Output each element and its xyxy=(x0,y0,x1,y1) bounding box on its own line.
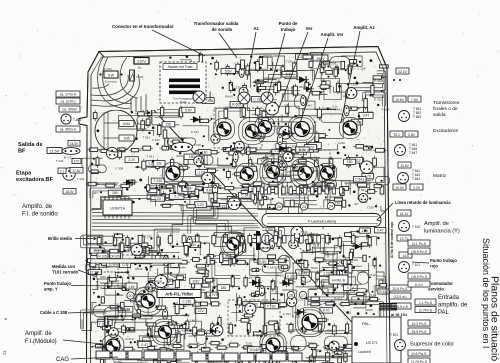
svg-text:C 641: C 641 xyxy=(267,266,275,270)
value label 4.7V (box 31) xyxy=(322,362,333,363)
diode D612 xyxy=(123,179,135,185)
resistor R603 xyxy=(313,347,317,359)
wire xyxy=(147,193,156,206)
wire xyxy=(274,173,305,179)
transistor T219 xyxy=(283,152,293,162)
power transistor T656 xyxy=(163,163,184,184)
resistor R453 xyxy=(279,154,282,167)
right cluster box 2.8V xyxy=(405,131,418,137)
resistor R359 xyxy=(179,182,186,186)
svg-text:C 641: C 641 xyxy=(152,138,160,142)
resistor R512 xyxy=(149,279,153,291)
wire xyxy=(319,190,330,207)
svg-text:Conectat: Conectat xyxy=(105,80,117,84)
svg-text:R640: R640 xyxy=(176,154,184,158)
resistor R463 xyxy=(177,184,190,187)
value label 1.2V (box 68) xyxy=(359,228,370,233)
resistor R505 xyxy=(264,261,276,264)
right box 14.1V xyxy=(397,210,411,216)
wire xyxy=(313,69,330,94)
svg-text:Matriz: Matriz xyxy=(433,173,447,179)
resistor R651 xyxy=(293,84,297,98)
resistor R568 xyxy=(208,351,212,363)
wire xyxy=(354,92,384,108)
resistor R484 xyxy=(223,232,227,245)
value label C 230 (box 62) xyxy=(179,299,194,305)
wire xyxy=(250,260,284,275)
value label 180 (box 44) xyxy=(184,154,199,159)
resistor R626 xyxy=(310,91,323,95)
resistor R401 xyxy=(215,60,219,72)
wire xyxy=(280,125,314,143)
svg-text:17: 17 xyxy=(301,293,305,297)
svg-text:R 612: R 612 xyxy=(381,107,389,111)
resistor R627 xyxy=(195,270,209,273)
wire loop xyxy=(178,181,188,196)
leader for Amplit. Ver xyxy=(299,38,328,126)
svg-text:23: 23 xyxy=(2,350,7,355)
capacitor C601 xyxy=(277,135,282,145)
box 14.5V above oval xyxy=(68,141,80,147)
resistor R540 xyxy=(193,325,197,338)
resistor R614 xyxy=(166,322,180,325)
value label 4.7V (box 13) xyxy=(160,279,173,284)
test point (28) xyxy=(287,291,294,298)
svg-text:ca. 17Vs-S: ca. 17Vs-S xyxy=(60,93,77,97)
left margin cluster box ca 12m xyxy=(56,98,80,104)
resistor R636 xyxy=(208,342,221,345)
value label 5.6V (box 50) xyxy=(282,72,297,78)
resistor R346 xyxy=(345,233,352,237)
wire xyxy=(95,239,131,250)
resistor R565 xyxy=(323,345,335,348)
wire loop xyxy=(144,251,161,263)
resistor R571 xyxy=(256,353,260,363)
svg-text:C 641: C 641 xyxy=(358,188,366,192)
resistor R701 xyxy=(177,166,190,169)
wire (bottom edge) xyxy=(191,352,216,354)
wire xyxy=(139,314,152,319)
left margin cluster box ca 30Vef xyxy=(59,106,80,112)
wire xyxy=(292,263,322,272)
resistor R431 xyxy=(99,149,112,152)
svg-text:7.5V: 7.5V xyxy=(411,98,419,102)
resistor R665 xyxy=(354,292,366,295)
resistor R643 xyxy=(194,264,208,268)
svg-text:R640: R640 xyxy=(311,266,319,270)
svg-text:H-PAL-B: H-PAL-B xyxy=(332,279,346,283)
wire xyxy=(92,279,114,290)
wire xyxy=(283,181,318,205)
right boxes 10.4V 2.2V xyxy=(393,184,423,190)
resistor R404 xyxy=(246,63,250,77)
transistor T227 xyxy=(262,233,274,245)
value label 0.47 (box 8) xyxy=(359,112,373,118)
wire xyxy=(343,270,362,286)
svg-text:Punto trabajo: Punto trabajo xyxy=(430,258,457,263)
svg-text:T 641: T 641 xyxy=(146,155,154,159)
wire xyxy=(200,266,206,273)
svg-text:Hacker mit Trafo: Hacker mit Trafo xyxy=(168,65,193,69)
wire xyxy=(323,62,343,69)
leader for Conector label xyxy=(152,30,205,56)
bottom connector box 13 xyxy=(288,353,302,361)
value label 10.8V (box 75) xyxy=(311,53,322,58)
resistor R703 xyxy=(134,297,146,301)
wire channel 3 xyxy=(350,303,384,318)
wire (vertical) xyxy=(115,290,117,324)
resistor R694 xyxy=(260,195,264,208)
transistor T214 xyxy=(289,240,298,249)
transistor with cross T613 xyxy=(261,92,273,104)
svg-text:1.5V: 1.5V xyxy=(128,285,136,289)
resistor R497 xyxy=(117,262,130,266)
wire xyxy=(147,194,198,199)
svg-text:T 641: T 641 xyxy=(360,200,368,204)
svg-text:14.5V: 14.5V xyxy=(70,142,79,146)
resistor R550 xyxy=(346,322,349,336)
wire xyxy=(320,264,339,276)
value label T 230 (box 78) xyxy=(258,159,272,164)
wire xyxy=(274,204,299,219)
wire xyxy=(254,75,295,82)
svg-text:R 612: R 612 xyxy=(374,98,382,102)
value label C 641 (box 5) xyxy=(239,192,254,198)
resistor R601 xyxy=(132,247,144,251)
wire xyxy=(287,346,316,361)
luminance delay line inner xyxy=(267,217,378,224)
wire channel 15 xyxy=(195,208,238,231)
resistor R516 xyxy=(203,274,207,288)
wire xyxy=(294,151,320,161)
resistor R351 xyxy=(307,244,311,250)
resistor R546 xyxy=(289,322,293,334)
left margin transistor T601 xyxy=(61,114,81,124)
resistor R572 xyxy=(293,354,297,363)
svg-text:C 308: C 308 xyxy=(239,303,247,307)
svg-text:servicio: servicio xyxy=(428,287,444,292)
resistor R543 xyxy=(247,321,250,335)
svg-text:(15.9 Pv-S: (15.9 Pv-S xyxy=(411,250,428,254)
svg-text:Transistores: Transistores xyxy=(433,100,460,106)
resistor R306 xyxy=(258,191,262,200)
svg-text:MASSICT: MASSICT xyxy=(100,281,114,285)
wire xyxy=(148,176,175,196)
resistor R561 xyxy=(259,345,272,349)
resistor R410 xyxy=(348,63,351,77)
value label 0.47 (box 82) xyxy=(138,342,151,348)
resistor R440 xyxy=(245,148,259,152)
wire channel 11 xyxy=(262,229,283,241)
right box 25.9PvS xyxy=(408,328,430,334)
resistor R503 xyxy=(219,261,233,265)
wire (vertical) xyxy=(210,281,212,305)
wire loop xyxy=(295,95,307,109)
wire channel 9 xyxy=(115,354,141,361)
value label 10.8V (box 28) xyxy=(201,353,214,359)
value label 0.47 (box 18) xyxy=(320,308,333,313)
resistor R418 xyxy=(336,81,339,94)
power transistor T655 xyxy=(340,118,361,139)
capacitor C608 xyxy=(163,256,168,266)
wire xyxy=(381,206,385,211)
resistor R347 xyxy=(350,249,353,256)
value label 4.7V (box 41) xyxy=(206,292,218,298)
power transistor T664 xyxy=(260,332,286,358)
resistor R441 xyxy=(269,149,281,153)
resistor R470 xyxy=(297,185,311,188)
svg-text:R 612: R 612 xyxy=(379,290,388,294)
svg-text:T230: T230 xyxy=(286,59,293,63)
wire xyxy=(230,73,251,88)
svg-text:Línea retardo de luminancia: Línea retardo de luminancia xyxy=(395,200,451,205)
svg-text:5.6V: 5.6V xyxy=(185,108,193,112)
resistor R467 xyxy=(240,184,252,187)
value label C 230 (box 63) xyxy=(252,96,265,102)
resistor R702 xyxy=(174,276,186,280)
resistor R520 xyxy=(271,278,275,291)
wire xyxy=(122,246,145,261)
resistor R531 xyxy=(257,304,270,308)
svg-text:finales o de: finales o de xyxy=(433,106,458,112)
resistor R434 xyxy=(140,146,153,150)
svg-text:20.6 Pv-S: 20.6 Pv-S xyxy=(393,287,409,291)
wire xyxy=(240,108,274,122)
resistor R352 xyxy=(348,265,352,273)
wire xyxy=(302,238,341,260)
svg-text:N 105: N 105 xyxy=(98,254,107,258)
resistor R695 xyxy=(347,120,350,131)
resistor R469 xyxy=(267,182,281,186)
resistor R616 xyxy=(254,193,257,206)
resistor R681 xyxy=(260,118,271,122)
svg-text:C 308: C 308 xyxy=(226,72,234,76)
leader for Punto trabajo rojo xyxy=(412,262,429,263)
resistor R353 xyxy=(268,205,276,209)
wire (bottom edge) xyxy=(153,360,182,362)
value label 10.8V (box 34) xyxy=(126,354,138,359)
resistor R406 xyxy=(281,64,285,76)
component designators xyxy=(93,59,390,363)
bottom connector box 7 xyxy=(192,353,206,361)
svg-text:C 308: C 308 xyxy=(265,227,273,231)
wire xyxy=(189,237,210,251)
diode box 1N5 inside circle xyxy=(119,135,134,141)
value label T 230 (box 14) xyxy=(264,304,279,309)
svg-text:0.1u: 0.1u xyxy=(275,149,281,153)
value label 180 (box 42) xyxy=(282,354,295,360)
wire xyxy=(119,115,147,129)
resistor R522 xyxy=(316,276,320,289)
svg-text:ca. 30Vef: ca. 30Vef xyxy=(62,108,76,112)
value label C 641 (box 7) xyxy=(205,293,218,298)
wire xyxy=(92,196,129,211)
transistor with cross T611 xyxy=(193,91,205,103)
wire loop xyxy=(137,116,152,124)
wire xyxy=(322,170,334,188)
resistor R714 xyxy=(160,204,173,207)
right boxes bottom xyxy=(408,350,430,363)
svg-text:F.I.(Módulo): F.I.(Módulo) xyxy=(25,339,57,345)
wire xyxy=(189,286,213,292)
resistor R621 xyxy=(262,109,266,120)
value label R 605 (box 30) xyxy=(230,102,243,108)
wire xyxy=(222,69,250,76)
wire channel (FI road) xyxy=(91,259,182,264)
solder junctions xyxy=(126,182,249,200)
resistor R409 xyxy=(336,65,339,77)
wire xyxy=(379,280,384,290)
resistor R632 xyxy=(160,146,172,150)
resistor R329 xyxy=(373,76,381,79)
dashed group outline 4 xyxy=(228,300,280,336)
wire xyxy=(363,83,385,98)
resistor R344 xyxy=(338,357,342,363)
wire (vertical) xyxy=(270,286,272,306)
wire xyxy=(169,321,202,331)
svg-text:PAL: PAL xyxy=(438,310,450,316)
resistor R489 xyxy=(295,233,299,246)
resistor R356 xyxy=(322,185,326,192)
resistor R457 xyxy=(360,156,364,170)
resistor R654 xyxy=(359,243,370,246)
resistor R638 xyxy=(242,314,255,317)
diode D602 xyxy=(294,309,307,316)
bottom connector box 11 xyxy=(256,353,270,361)
resistor R664 xyxy=(232,157,236,169)
resistor R667 xyxy=(137,307,140,319)
resistor R713 xyxy=(290,150,293,162)
resistor R451 xyxy=(249,157,252,169)
resistor R323 xyxy=(267,255,275,259)
svg-text:amplifo. de: amplifo. de xyxy=(438,303,468,309)
svg-text:F-Lautzeit-Leitung: F-Lautzeit-Leitung xyxy=(308,219,336,223)
value label 180 (box 64) xyxy=(217,285,229,291)
wire channel 20 xyxy=(145,108,181,115)
svg-text:T 641: T 641 xyxy=(143,136,151,140)
box 17.8V (excitadora) xyxy=(70,168,83,174)
value label 8.6V (box 25) xyxy=(155,326,167,331)
board outline (outer) xyxy=(79,47,390,363)
solder junctions xyxy=(269,187,328,210)
PAL module outline xyxy=(352,317,401,363)
solder junctions xyxy=(103,329,334,357)
wire xyxy=(94,243,141,252)
wire xyxy=(345,286,384,300)
resistor R648 xyxy=(229,256,232,267)
wire xyxy=(92,302,97,315)
resistor R521 xyxy=(301,275,305,287)
svg-text:(0.6 Pw-S: (0.6 Pw-S xyxy=(412,352,428,356)
resistor R444 xyxy=(361,146,374,150)
box DF105 xyxy=(110,253,121,259)
svg-text:0.1u: 0.1u xyxy=(371,293,377,297)
resistor R666 xyxy=(146,117,150,128)
resistor R316 xyxy=(90,263,96,267)
svg-text:4k7: 4k7 xyxy=(354,202,359,206)
solder junctions xyxy=(0,0,1,1)
resistor R340 xyxy=(253,332,262,335)
resistor R477 xyxy=(126,235,129,248)
svg-text:C 308: C 308 xyxy=(365,110,373,114)
svg-text:C 230: C 230 xyxy=(287,274,296,278)
box 265V top centre xyxy=(313,55,328,61)
resistor R718 xyxy=(315,318,328,321)
resistor R641 xyxy=(241,145,245,156)
svg-text:Punto trabajo: Punto trabajo xyxy=(44,281,71,286)
resistor R519 xyxy=(256,275,260,289)
resistor R421 xyxy=(161,105,164,118)
leader for Conmutador servicio xyxy=(398,286,427,288)
resistor R553 xyxy=(121,347,135,351)
wire xyxy=(244,351,288,359)
svg-text:R 612: R 612 xyxy=(368,273,376,277)
svg-text:Brillo medio: Brillo medio xyxy=(48,236,73,241)
wire xyxy=(324,175,350,194)
resistor R337 xyxy=(108,345,112,354)
wire channel 21 xyxy=(140,231,180,251)
wire xyxy=(310,234,338,247)
wire loop xyxy=(167,138,195,145)
resistor R619 xyxy=(253,80,266,84)
svg-text:trabajo: trabajo xyxy=(281,27,296,32)
value label T 230 (box 56) xyxy=(322,166,334,172)
wire xyxy=(267,56,285,66)
wire xyxy=(287,71,374,84)
value label 0.1 (box 29) xyxy=(277,177,291,183)
wire xyxy=(316,251,328,261)
resistor R615 xyxy=(188,193,200,196)
connector hatch block (board edge) xyxy=(379,304,397,310)
wire xyxy=(377,272,385,285)
resistor R403 xyxy=(236,62,240,74)
svg-text:Entrada: Entrada xyxy=(438,295,460,301)
resistor R490 xyxy=(309,232,313,244)
resistor R533 xyxy=(308,303,322,306)
resistor R688 xyxy=(256,196,269,199)
resistor row above delay line xyxy=(253,187,343,194)
wire xyxy=(114,319,147,332)
transistor with cross T612 xyxy=(238,92,250,104)
resistor R605 xyxy=(240,360,251,363)
resistor R613 xyxy=(120,287,131,290)
resistor R432 xyxy=(115,148,127,152)
resistor R315 xyxy=(132,314,140,318)
resistor R338 xyxy=(257,355,263,359)
wire xyxy=(319,276,341,286)
wire loop xyxy=(213,356,235,363)
svg-text:CAG: CAG xyxy=(56,357,69,363)
resistor R672 xyxy=(285,275,289,287)
resistor R325 xyxy=(336,271,339,279)
resistor R365 xyxy=(187,205,195,208)
corner cluster resistor P340 5W xyxy=(99,67,122,84)
wire xyxy=(150,336,172,357)
bottom connector box 9 xyxy=(224,353,238,361)
svg-text:C 308: C 308 xyxy=(289,145,297,149)
svg-text:T 102: T 102 xyxy=(412,225,420,229)
wire xyxy=(360,167,384,189)
wire xyxy=(259,103,292,134)
value label 2.2V (box 77) xyxy=(151,196,165,201)
value label 3.3V (box 33) xyxy=(98,319,113,325)
value label 5.6V (box 9) xyxy=(293,164,306,170)
test point (23) xyxy=(300,203,307,210)
svg-text:Ver: Ver xyxy=(306,26,313,31)
resistor R439 xyxy=(230,149,244,152)
capacitor C605 xyxy=(187,236,192,246)
wire xyxy=(310,144,342,158)
